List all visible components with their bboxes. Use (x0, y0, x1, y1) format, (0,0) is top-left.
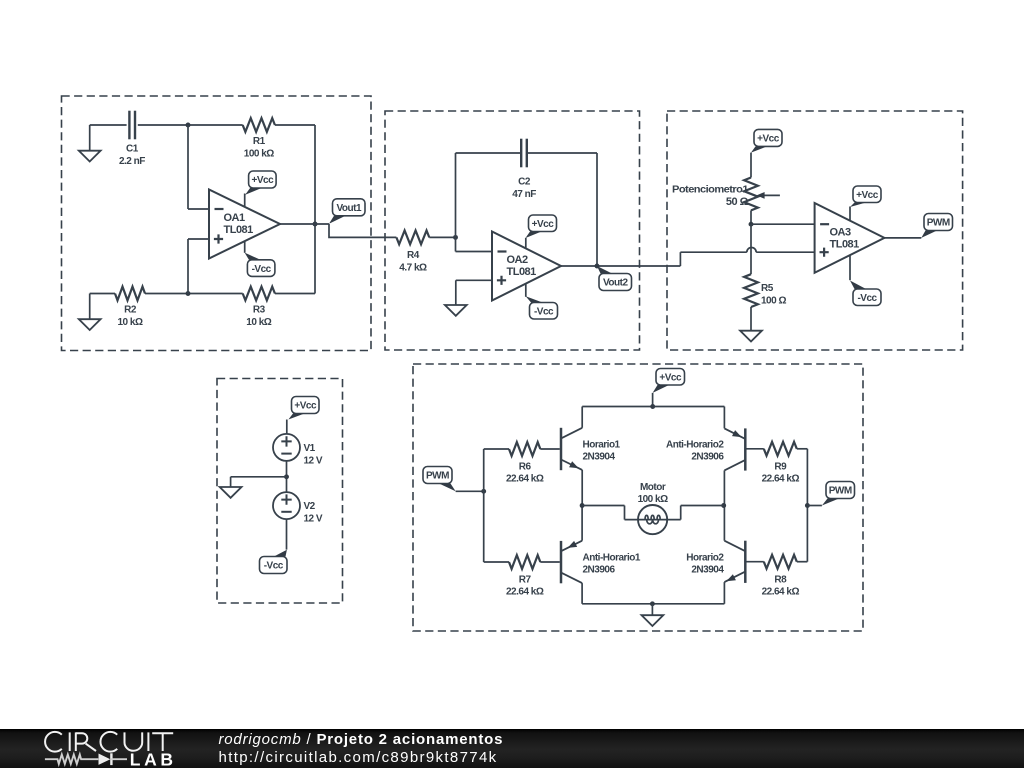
svg-text:C2: C2 (518, 176, 531, 187)
svg-text:100 kΩ: 100 kΩ (244, 148, 275, 159)
svg-text:OA1: OA1 (224, 212, 246, 224)
svg-text:R7: R7 (519, 575, 532, 586)
svg-text:10 kΩ: 10 kΩ (118, 317, 143, 328)
svg-text:OA3: OA3 (830, 227, 852, 239)
svg-text:PWM: PWM (927, 218, 950, 229)
svg-text:+Vcc: +Vcc (252, 175, 275, 186)
svg-text:+Vcc: +Vcc (757, 134, 780, 145)
svg-text:22.64 kΩ: 22.64 kΩ (762, 474, 800, 485)
svg-text:Horario1: Horario1 (583, 440, 621, 451)
svg-text:+Vcc: +Vcc (856, 190, 879, 201)
svg-text:Anti-Horario1: Anti-Horario1 (583, 553, 641, 564)
svg-text:R3: R3 (253, 305, 266, 316)
svg-text:22.64 kΩ: 22.64 kΩ (506, 474, 544, 485)
svg-text:R2: R2 (124, 305, 137, 316)
svg-text:Vout1: Vout1 (336, 203, 361, 214)
svg-text:+Vcc: +Vcc (294, 401, 317, 412)
svg-text:TL081: TL081 (830, 238, 860, 250)
svg-text:http://circuitlab.com/c89br9kt: http://circuitlab.com/c89br9kt8774k (219, 749, 498, 766)
svg-text:OA2: OA2 (507, 254, 529, 266)
svg-text:2N3904: 2N3904 (583, 452, 616, 463)
svg-text:12 V: 12 V (304, 455, 323, 466)
svg-text:100 Ω: 100 Ω (761, 296, 786, 307)
svg-text:-Vcc: -Vcc (252, 264, 272, 275)
svg-text:-Vcc: -Vcc (264, 561, 284, 572)
svg-text:R1: R1 (253, 136, 266, 147)
svg-text:2N3904: 2N3904 (691, 565, 724, 576)
svg-text:-Vcc: -Vcc (534, 306, 554, 317)
svg-text:Motor: Motor (640, 482, 666, 493)
svg-text:R6: R6 (519, 462, 532, 473)
svg-text:Anti-Horario2: Anti-Horario2 (666, 440, 724, 451)
svg-text:2N3906: 2N3906 (691, 452, 724, 463)
svg-text:47 nF: 47 nF (512, 189, 536, 200)
svg-text:4.7 kΩ: 4.7 kΩ (399, 262, 427, 273)
svg-text:Horario2: Horario2 (686, 553, 724, 564)
svg-text:R8: R8 (774, 575, 787, 586)
svg-text:LAB: LAB (130, 750, 177, 768)
svg-text:100 kΩ: 100 kΩ (638, 494, 669, 505)
svg-text:50 Ω: 50 Ω (726, 196, 749, 208)
svg-text:12 V: 12 V (304, 514, 323, 525)
svg-text:C1: C1 (126, 143, 139, 154)
svg-text:10 kΩ: 10 kΩ (246, 317, 271, 328)
svg-text:V2: V2 (304, 501, 316, 512)
svg-text:PWM: PWM (829, 486, 852, 497)
svg-text:R9: R9 (774, 462, 787, 473)
svg-text:+Vcc: +Vcc (659, 372, 682, 383)
svg-text:22.64 kΩ: 22.64 kΩ (506, 587, 544, 598)
svg-text:R4: R4 (407, 250, 420, 261)
svg-text:2N3906: 2N3906 (583, 565, 616, 576)
svg-text:2.2 nF: 2.2 nF (119, 156, 145, 167)
svg-text:R5: R5 (761, 283, 774, 294)
svg-text:V1: V1 (304, 443, 316, 454)
svg-text:TL081: TL081 (507, 266, 537, 278)
svg-text:TL081: TL081 (224, 224, 254, 236)
svg-text:Potenciometro1: Potenciometro1 (672, 185, 749, 196)
svg-text:22.64 kΩ: 22.64 kΩ (762, 587, 800, 598)
svg-text:rodrigocmb / Projeto 2 acionam: rodrigocmb / Projeto 2 acionamentos (219, 731, 504, 748)
svg-text:+Vcc: +Vcc (532, 219, 555, 230)
svg-text:Vout2: Vout2 (603, 278, 628, 289)
svg-text:-Vcc: -Vcc (857, 293, 877, 304)
svg-text:PWM: PWM (426, 471, 449, 482)
